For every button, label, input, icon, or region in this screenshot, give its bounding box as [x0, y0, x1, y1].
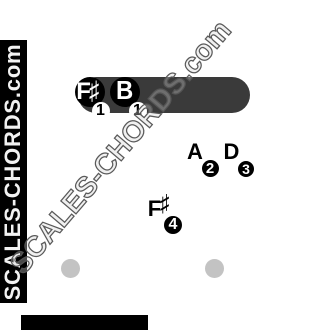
sharp sign of F#4 — [160, 192, 169, 215]
label A — [187, 143, 203, 161]
watermark scales-chords.com diagonal — [6, 16, 237, 279]
finger badge 4 (F#) — [164, 216, 182, 234]
open string dot right (gray) — [205, 259, 224, 278]
bottom band — [21, 315, 148, 330]
label B on disc — [116, 78, 133, 103]
left banner — [0, 40, 27, 303]
finger badge 2 (A) — [202, 160, 219, 177]
label F on disc — [76, 80, 91, 104]
label D — [224, 143, 240, 161]
sharp sign of F# on disc — [89, 79, 99, 105]
finger badge 1 (F#) — [92, 102, 110, 120]
note dot F# (fret disc) — [75, 77, 105, 107]
open string dot left (gray) — [61, 259, 80, 278]
barre bar — [78, 77, 250, 113]
label F# (4th) — [148, 198, 161, 220]
finger badge 1 (B) — [129, 102, 147, 120]
note dot B (fret disc) — [110, 77, 140, 107]
left banner text scales-chords.com — [0, 40, 27, 303]
finger badge 3 (D) — [238, 161, 254, 177]
